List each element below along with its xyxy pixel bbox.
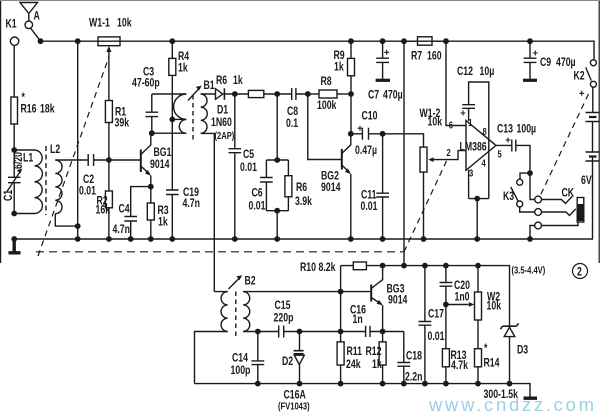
- op-amp U1 LM386: [443, 38, 502, 178]
- svg-text:1k: 1k: [233, 75, 243, 87]
- node ground left: [11, 236, 17, 242]
- svg-text:220p: 220p: [274, 312, 294, 324]
- resistor R1: [105, 101, 129, 161]
- svg-text:1n0: 1n0: [455, 291, 470, 303]
- svg-text:10k: 10k: [487, 300, 502, 312]
- node collector BG2 / C10: [348, 131, 354, 137]
- svg-text:3.9k: 3.9k: [295, 196, 312, 208]
- svg-text:C14: C14: [232, 352, 248, 364]
- svg-text:160: 160: [427, 50, 442, 62]
- svg-text:C9: C9: [540, 57, 551, 69]
- capacitor C8: [277, 88, 308, 130]
- svg-text:C12: C12: [457, 66, 473, 78]
- svg-text:C8: C8: [287, 106, 298, 118]
- capacitor C14: [231, 329, 265, 384]
- svg-text:47-60p: 47-60p: [132, 77, 160, 89]
- svg-text:1n: 1n: [353, 314, 363, 326]
- svg-text:B1: B1: [204, 80, 215, 92]
- node C10/C11: [380, 131, 386, 137]
- svg-text:4.7n: 4.7n: [183, 198, 200, 210]
- capacitor C16 1n: [350, 304, 370, 337]
- svg-text:9014: 9014: [388, 294, 408, 306]
- transistor BG2 9014: [308, 94, 351, 239]
- capacitor C5: [229, 94, 258, 239]
- potentiometer W1-2: [383, 108, 466, 239]
- svg-text:0.47µ: 0.47µ: [355, 145, 377, 157]
- svg-text:4.7k: 4.7k: [451, 360, 468, 372]
- resistor R8 100k: [308, 76, 351, 112]
- svg-text:8.2k: 8.2k: [319, 262, 336, 274]
- svg-text:5: 5: [498, 148, 502, 159]
- resistor R9 1k: [334, 38, 355, 94]
- parallel C6 / R6 3.9k: [249, 94, 313, 239]
- svg-text:1k: 1k: [372, 359, 382, 371]
- dashed gang line W1-2: [404, 161, 447, 252]
- node L1 bottom: [11, 211, 17, 217]
- capacitor C10 0.47u: [351, 110, 383, 157]
- svg-text:R12: R12: [366, 346, 382, 358]
- svg-text:C7: C7: [368, 89, 379, 101]
- svg-text:*: *: [484, 343, 487, 355]
- svg-text:R7: R7: [411, 50, 422, 62]
- svg-text:4: 4: [482, 157, 486, 168]
- svg-text:(2AP): (2AP): [215, 130, 235, 141]
- svg-text:R10: R10: [300, 262, 316, 274]
- svg-text:D1: D1: [217, 104, 228, 116]
- capacitor C9 470u: [523, 38, 576, 80]
- figure number 2: [573, 264, 588, 279]
- potentiometer W2 10k: [446, 263, 501, 349]
- svg-text:W1-1: W1-1: [89, 17, 110, 29]
- capacitor C19: [166, 187, 200, 239]
- watermark: [428, 394, 597, 415]
- resistor R16: [11, 45, 55, 150]
- svg-text:C13: C13: [497, 123, 513, 135]
- capacitor C17: [419, 263, 445, 384]
- svg-text:BG1: BG1: [154, 147, 172, 159]
- svg-text:470µ: 470µ: [383, 89, 403, 101]
- svg-text:9014: 9014: [150, 159, 170, 171]
- svg-text:A: A: [34, 10, 41, 22]
- svg-text:C17: C17: [428, 308, 444, 320]
- resistor R13 4.7k: [442, 305, 468, 384]
- node B1 tap: [169, 117, 175, 123]
- node emitter BG1: [148, 184, 154, 190]
- capacitor C7 470u: [368, 38, 403, 102]
- svg-text:R6: R6: [216, 75, 227, 87]
- ground symbol bottom right: [524, 397, 538, 400]
- svg-text:D3: D3: [517, 344, 528, 356]
- wire B1 secondary bottom to B2: [201, 133, 215, 291]
- capacitor C13 100u: [496, 123, 536, 173]
- zener diode D3: [500, 323, 528, 383]
- svg-text:(FV1043): (FV1043): [278, 400, 310, 411]
- svg-text:10µ: 10µ: [480, 66, 495, 78]
- svg-text:K2: K2: [574, 70, 585, 82]
- node D1/C5: [232, 91, 238, 97]
- core L1/L2 dashed: [45, 146, 47, 215]
- svg-text:100k: 100k: [317, 100, 337, 112]
- resistor R11 24k: [337, 332, 362, 384]
- antenna A: [20, 3, 40, 29]
- capacitor C18 2.2n: [397, 332, 422, 384]
- svg-text:39k: 39k: [115, 117, 130, 129]
- ground symbol left: [9, 239, 21, 253]
- resistor R12 1k: [366, 332, 387, 384]
- svg-text:100p: 100p: [231, 365, 251, 377]
- svg-text:R8: R8: [321, 76, 332, 88]
- svg-text:CK: CK: [562, 187, 575, 199]
- varicap D2 C16A: [278, 329, 310, 412]
- capacitor C12 10u: [457, 66, 494, 199]
- svg-text:R14: R14: [484, 357, 500, 369]
- wire base node to R11: [340, 292, 342, 332]
- svg-text:2: 2: [447, 147, 451, 158]
- inductor L2: [50, 144, 78, 226]
- LM386 ground pins 3,4: [469, 170, 489, 239]
- wire column x=77.7: [77, 41, 79, 239]
- svg-text:R6: R6: [296, 182, 307, 194]
- svg-text:2.2n: 2.2n: [405, 371, 422, 383]
- wire tap to C19: [171, 119, 173, 189]
- wire B+ drop x=404: [403, 41, 405, 265]
- svg-text:C18: C18: [406, 350, 422, 362]
- switch K2: [574, 60, 597, 96]
- wire top supply rail y=41: [41, 41, 595, 60]
- wire bottom rail y=383.6: [195, 384, 531, 397]
- svg-text:1N60: 1N60: [211, 117, 232, 129]
- svg-text:C5: C5: [243, 149, 254, 161]
- svg-text:K3: K3: [503, 191, 514, 203]
- svg-text:6V: 6V: [581, 175, 592, 187]
- svg-text:100µ: 100µ: [517, 123, 537, 135]
- variable capacitor C1 6/20: [3, 150, 25, 214]
- node base BG3: [338, 289, 344, 295]
- node R6/C8: [274, 91, 280, 97]
- capacitor C20 1n0: [440, 263, 471, 305]
- svg-text:4.7n: 4.7n: [113, 224, 130, 236]
- wire R9 node to collector node: [350, 94, 352, 134]
- dashed horizontal line: [36, 251, 404, 253]
- svg-text:LM386: LM386: [460, 141, 487, 153]
- switch K1: [6, 18, 44, 45]
- potentiometer W1-1: [89, 17, 132, 100]
- svg-text:10k: 10k: [117, 17, 132, 29]
- svg-text:6: 6: [449, 119, 453, 130]
- svg-text:18k: 18k: [40, 103, 55, 115]
- transformer B1: [152, 80, 215, 140]
- resistor R3: [147, 187, 169, 239]
- node C8/R8/base BG2: [305, 91, 311, 97]
- svg-text:C15: C15: [275, 300, 291, 312]
- svg-text:16k: 16k: [96, 204, 111, 216]
- capacitor C3: [132, 66, 160, 133]
- capacitor C4: [113, 187, 151, 239]
- inductor L1: [14, 150, 42, 214]
- svg-text:L1: L1: [23, 152, 33, 164]
- node C13/K3: [527, 170, 533, 176]
- svg-text:3: 3: [469, 167, 473, 178]
- svg-text:D2: D2: [282, 356, 293, 368]
- svg-text:0.01: 0.01: [361, 201, 378, 213]
- switch K3: [503, 173, 541, 239]
- node C20/R13/wiper W2: [443, 302, 449, 308]
- capacitor C15: [274, 300, 294, 338]
- resistor R10 8.2k: [300, 262, 366, 292]
- svg-text:R16: R16: [21, 103, 37, 115]
- resistor R7 160: [401, 37, 446, 63]
- battery 6V: [581, 87, 600, 187]
- resistor R14: [475, 343, 500, 384]
- node C3 bottom / collector: [149, 130, 155, 136]
- svg-text:8: 8: [483, 126, 487, 137]
- resistor R4: [169, 38, 190, 119]
- svg-text:www.cndzz.com: www.cndzz.com: [428, 394, 597, 415]
- svg-text:(3.5-4.4V): (3.5-4.4V): [512, 264, 546, 275]
- capacitor C6: [265, 160, 267, 211]
- dashed gang line C1/W1-1: [38, 57, 109, 256]
- svg-text:C6: C6: [252, 187, 263, 199]
- svg-text:0.01: 0.01: [79, 185, 96, 197]
- svg-text:10k: 10k: [428, 116, 443, 128]
- node L1 top: [11, 147, 17, 153]
- svg-text:R11: R11: [347, 346, 363, 358]
- svg-text:1k: 1k: [158, 216, 168, 228]
- svg-text:1k: 1k: [178, 62, 188, 74]
- node base BG1: [106, 157, 112, 163]
- svg-text:L2: L2: [50, 144, 60, 156]
- svg-text:B2: B2: [245, 275, 256, 287]
- svg-text:24k: 24k: [346, 359, 361, 371]
- svg-text:470µ: 470µ: [556, 57, 576, 69]
- svg-text:K1: K1: [6, 18, 17, 30]
- svg-text:C1: C1: [3, 190, 15, 201]
- capacitor C11: [361, 134, 389, 239]
- wire ground rail y=239: [14, 161, 592, 239]
- resistor R6 3.9k: [287, 160, 289, 211]
- svg-text:0.01: 0.01: [240, 162, 257, 174]
- wire row A y=291.6: [243, 291, 371, 293]
- node R8/R9: [348, 91, 354, 97]
- svg-text:0.01: 0.01: [249, 200, 266, 212]
- transformer B2: [195, 275, 256, 383]
- resistor R2: [96, 160, 113, 239]
- svg-text:0.1: 0.1: [286, 118, 298, 130]
- resistor R6 1k: [216, 75, 277, 98]
- wire row C y=331.5: [243, 331, 404, 333]
- svg-text:9014: 9014: [321, 182, 341, 194]
- border frame: [1, 1, 600, 263]
- capacitor C2: [55, 154, 141, 198]
- svg-text:0.01: 0.01: [428, 331, 445, 343]
- dashed gang line K2/K3: [541, 94, 589, 195]
- svg-text:C10: C10: [362, 110, 378, 122]
- diode D1 1N60: [201, 88, 235, 141]
- transistor BG1 9014: [141, 133, 172, 186]
- transistor BG3 9014: [371, 266, 408, 332]
- svg-text:C4: C4: [119, 203, 130, 215]
- svg-text:1k: 1k: [334, 61, 344, 73]
- jack CK: [542, 187, 584, 225]
- svg-text:2: 2: [577, 266, 582, 278]
- wire bottom B+ rail y=265.6: [366, 266, 509, 328]
- svg-text:*: *: [22, 92, 25, 104]
